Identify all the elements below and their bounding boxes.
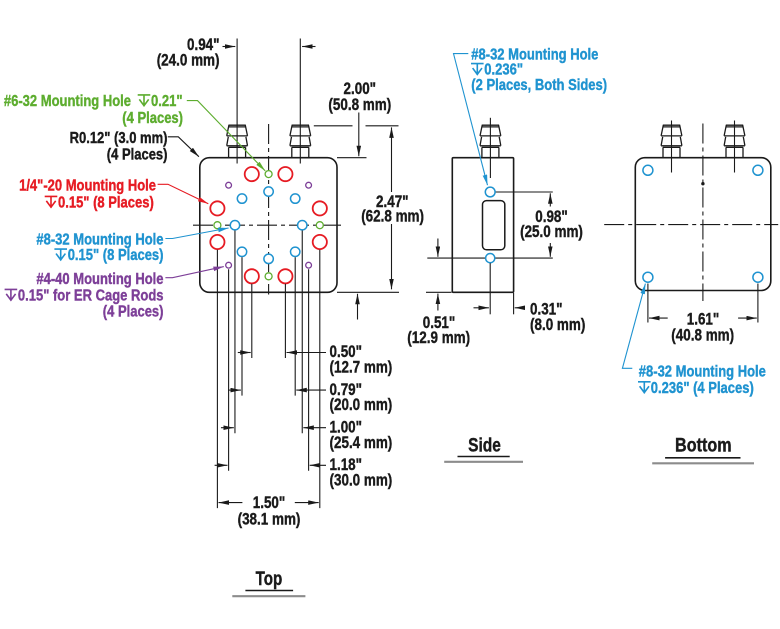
svg-text:(4 Places): (4 Places): [103, 303, 164, 320]
svg-text:(24.0 mm): (24.0 mm): [157, 51, 220, 69]
svg-text:#4-40 Mounting Hole: #4-40 Mounting Hole: [36, 271, 163, 288]
svg-text:0.15" for ER Cage Rods: 0.15" for ER Cage Rods: [18, 287, 164, 304]
svg-text:1/4"-20 Mounting Hole: 1/4"-20 Mounting Hole: [19, 178, 156, 195]
svg-text:#6-32 Mounting Hole: #6-32 Mounting Hole: [4, 93, 131, 110]
svg-text:0.15" (8 Places): 0.15" (8 Places): [68, 247, 164, 264]
svg-text:(12.7 mm): (12.7 mm): [330, 359, 393, 377]
svg-text:(50.8 mm): (50.8 mm): [328, 96, 391, 114]
svg-text:(4 Places): (4 Places): [107, 146, 168, 163]
svg-text:(25.0 mm): (25.0 mm): [520, 223, 583, 241]
svg-text:(38.1 mm): (38.1 mm): [238, 510, 301, 528]
svg-text:(62.8 mm): (62.8 mm): [361, 208, 424, 226]
svg-text:0.236": 0.236": [484, 62, 523, 79]
svg-text:(12.9 mm): (12.9 mm): [407, 329, 470, 347]
svg-text:1.50": 1.50": [253, 494, 286, 512]
svg-text:#8-32 Mounting Hole: #8-32 Mounting Hole: [36, 231, 163, 248]
svg-text:(4 Places): (4 Places): [122, 110, 183, 127]
svg-text:Side: Side: [468, 435, 501, 456]
svg-text:0.21": 0.21": [151, 93, 183, 110]
svg-text:(40.8 mm): (40.8 mm): [671, 327, 734, 345]
svg-text:(30.0 mm): (30.0 mm): [330, 471, 393, 489]
svg-text:0.236" (4 Places): 0.236" (4 Places): [651, 380, 754, 397]
svg-text:(2 Places, Both Sides): (2 Places, Both Sides): [471, 77, 607, 94]
svg-text:Bottom: Bottom: [675, 435, 732, 456]
svg-text:0.15" (8 Places): 0.15" (8 Places): [58, 194, 154, 211]
svg-text:R0.12" (3.0 mm): R0.12" (3.0 mm): [70, 130, 168, 147]
svg-text:(8.0 mm): (8.0 mm): [530, 316, 585, 334]
svg-text:(25.4 mm): (25.4 mm): [330, 434, 393, 452]
svg-text:#8-32 Mounting Hole: #8-32 Mounting Hole: [639, 363, 766, 380]
svg-text:Top: Top: [256, 569, 283, 590]
svg-text:(20.0 mm): (20.0 mm): [330, 396, 393, 414]
